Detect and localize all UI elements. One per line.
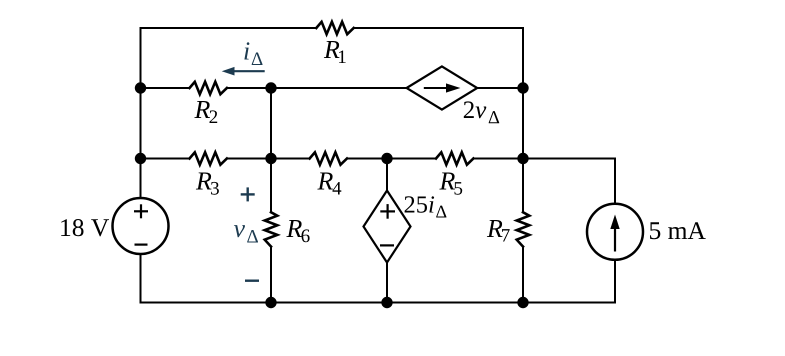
wire row2 middle	[227, 87, 407, 89]
resistor R4	[310, 152, 347, 164]
wire left vertical upper	[140, 28, 142, 198]
label vD (blue)	[234, 225, 258, 242]
wire right vertical lower stub	[614, 260, 616, 303]
wire x3 vertical upper stub	[386, 159, 388, 191]
wire top-right horizontal	[354, 27, 523, 29]
wire x4 vertical upper (top to R7)	[522, 28, 524, 212]
wire top-left horizontal	[141, 27, 317, 29]
label R3	[196, 173, 219, 195]
label 18 V	[61, 219, 109, 236]
wire row3 left stub	[141, 158, 190, 160]
wire x2 vertical upper stub	[270, 159, 272, 213]
wire x4 vertical lower	[522, 247, 524, 303]
node C dot (523,88)	[517, 82, 528, 93]
current source I1 5mA circle	[587, 204, 643, 260]
V1 plus sign	[134, 204, 148, 218]
wire row2 left stub	[141, 87, 190, 89]
resistor R7	[517, 212, 530, 246]
resistor R5	[436, 152, 473, 164]
dependent source U2 25iD diamond	[364, 191, 411, 263]
node H dot (271,302.5)	[265, 297, 276, 308]
node F dot (387,158.5)	[381, 153, 392, 164]
node B dot (271,88)	[265, 82, 276, 93]
U1 arrow (inside 2vD diamond)	[424, 83, 461, 92]
node A dot (140.5,88)	[135, 82, 146, 93]
wire bottom horizontal	[141, 302, 616, 304]
I1 arrow (inside 5mA circle)	[610, 215, 619, 252]
node E dot (271,158.5)	[265, 153, 276, 164]
wire row3 segment 4	[473, 158, 615, 160]
wire row3 segment 3	[347, 158, 436, 160]
wire row2 right stub	[477, 87, 523, 89]
resistor R1	[316, 22, 353, 34]
label R5	[439, 173, 462, 195]
label R6	[286, 220, 309, 242]
wire x3 vertical lower stub	[386, 263, 388, 303]
annotation plus sign (blue)	[241, 187, 255, 201]
node J dot (523,302.5)	[517, 297, 528, 308]
label R7	[487, 220, 510, 242]
label 5 mA	[650, 222, 706, 239]
node I dot (387,302.5)	[381, 297, 392, 308]
label R1	[324, 41, 346, 63]
resistor R2	[190, 82, 227, 94]
voltage source V1 18V circle	[113, 198, 169, 254]
annotation minus sign (blue)	[245, 280, 259, 282]
V1 minus sign	[135, 244, 148, 246]
node G dot (523,158.5)	[517, 153, 528, 164]
wire left vertical lower	[140, 254, 142, 303]
resistor R3	[190, 152, 227, 164]
U2 plus sign	[380, 204, 395, 219]
resistor R6	[265, 212, 278, 246]
label 2vD	[464, 101, 499, 123]
wire right vertical upper stub	[614, 159, 616, 204]
wire row3 segment 2	[227, 158, 310, 160]
wire node B vertical (x=271, row2 to row3)	[270, 88, 272, 159]
annotation iD current arrow (blue)	[222, 67, 265, 76]
label R2	[194, 101, 217, 123]
wire x2 vertical lower stub	[270, 247, 272, 303]
label iD (blue)	[244, 42, 262, 65]
node D dot (140.5,158.5)	[135, 153, 146, 164]
label 25iD	[405, 196, 447, 217]
label R4	[317, 173, 341, 195]
dependent source U1 2vD diamond	[407, 66, 478, 109]
U2 minus sign	[380, 244, 394, 246]
